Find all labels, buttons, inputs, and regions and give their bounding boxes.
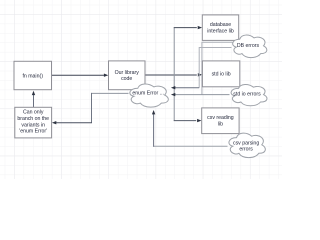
svg-text:Our library: Our library <box>115 70 140 76</box>
arrowhead into std io lib <box>198 73 202 76</box>
svg-text:DB errors: DB errors <box>237 43 260 49</box>
wire: down segment <box>91 93 93 123</box>
box fn main() <box>14 61 52 89</box>
arrowhead into database interface lib <box>198 26 202 29</box>
wire: DB errors cloud down toward enum Error <box>199 48 231 88</box>
wire: into enum Error upper right <box>175 87 200 89</box>
arrowhead into Our library code <box>104 74 108 77</box>
box database interface lib <box>202 15 238 41</box>
svg-text:code: code <box>121 76 132 82</box>
svg-text:std io lib: std io lib <box>212 72 231 78</box>
svg-text:std io errors: std io errors <box>233 91 261 97</box>
wire: Can only branch box up to fn main <box>33 95 35 108</box>
arrowhead into enum Error (upper right) <box>171 86 175 89</box>
wire: branch down to csv reading lib <box>174 120 197 122</box>
svg-text:variants in: variants in <box>21 122 45 128</box>
box Our library code <box>109 61 146 90</box>
svg-text:database: database <box>210 22 231 28</box>
wire: database interface lib down to junction <box>202 42 234 94</box>
svg-text:interface lib: interface lib <box>207 28 234 34</box>
box Can only branch on the variants in enum Error <box>15 107 52 138</box>
svg-text:'enum Error': 'enum Error' <box>19 129 47 135</box>
wire: up into enum Error bottom <box>153 113 155 146</box>
box std io lib <box>202 61 239 87</box>
svg-text:csv reading: csv reading <box>207 115 234 121</box>
wire: csv parsing errors cloud to enum Error bottom <box>154 145 228 147</box>
arrowhead into enum Error bottom <box>152 110 155 114</box>
wire: fn main to Our library code <box>52 74 106 76</box>
wire: branch up to database interface lib <box>174 27 197 29</box>
svg-text:fn main(): fn main() <box>22 73 43 79</box>
svg-text:errors: errors <box>239 147 253 153</box>
cloud csv parsing errors <box>229 133 265 157</box>
svg-text:csv parsing: csv parsing <box>233 140 259 146</box>
wire: Our library code to std io lib <box>145 74 197 76</box>
svg-text:branch on the: branch on the <box>17 116 49 122</box>
cloud DB errors <box>233 35 267 58</box>
svg-text:enum Error ...: enum Error ... <box>132 91 164 97</box>
arrowhead into fn main bottom <box>32 91 35 95</box>
wire: branch vertical <box>173 28 175 121</box>
cloud enum Error <box>130 84 169 107</box>
svg-text:lib: lib <box>218 121 223 127</box>
svg-text:Can only: Can only <box>23 110 44 116</box>
wire: enum Error cloud to Can only branch box <box>92 92 129 94</box>
wire: std io errors cloud to enum Error <box>175 94 230 96</box>
box csv reading lib <box>202 108 239 134</box>
arrowhead into Can only branch box <box>52 121 56 124</box>
arrowhead into enum Error (lower right) <box>171 93 175 96</box>
arrowhead into csv reading lib <box>197 119 201 122</box>
cloud std io errors <box>231 84 267 105</box>
wire: left into Can only branch box <box>55 122 92 124</box>
